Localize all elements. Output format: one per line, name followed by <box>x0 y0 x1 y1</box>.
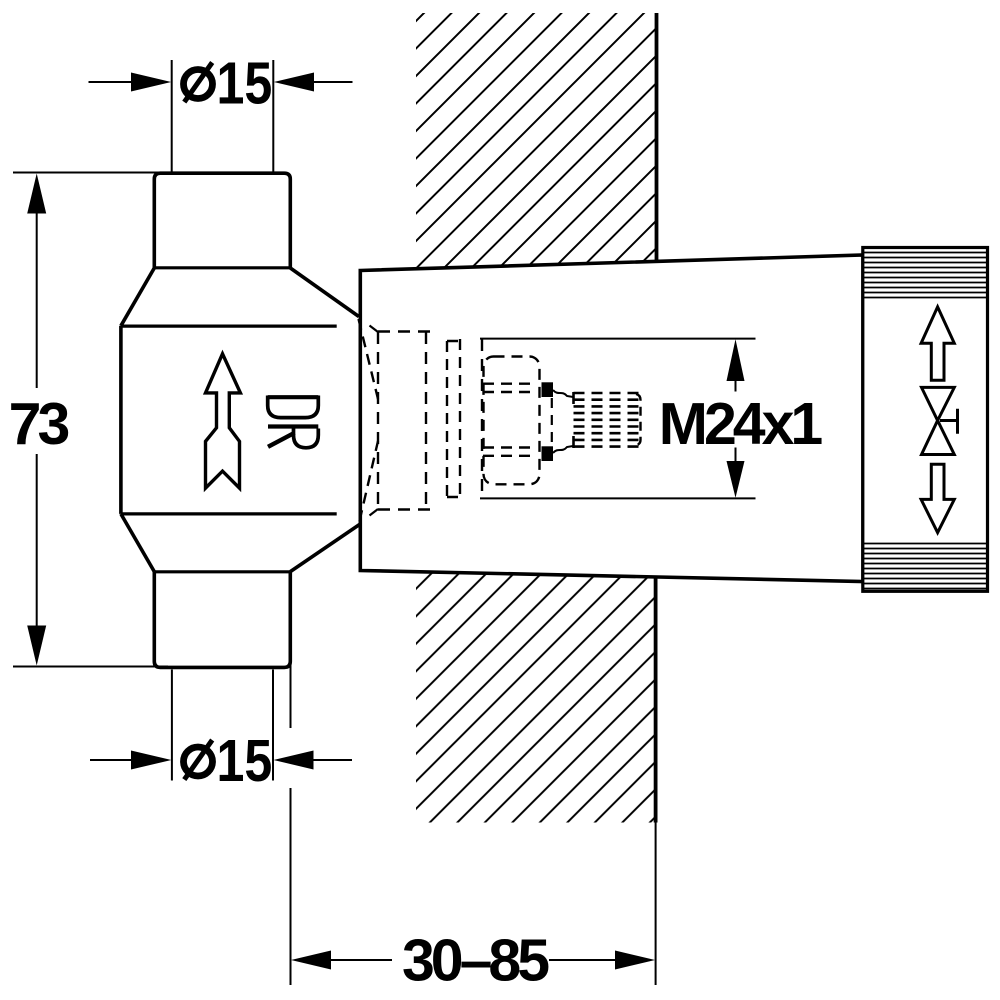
dim top d15 arrow left <box>131 73 171 92</box>
wall hatch lower <box>416 572 656 823</box>
seal O-ring top <box>542 382 554 397</box>
hidden taper dashed upper <box>359 319 379 399</box>
dim 73 arrow up <box>27 174 46 214</box>
svg-text:30–85: 30–85 <box>402 928 549 994</box>
dim top d15 extension right <box>272 60 274 174</box>
svg-text:73: 73 <box>9 391 69 457</box>
dim top d15 line right <box>312 81 353 83</box>
spindle thread dashed rows <box>574 393 640 447</box>
dim bottom d15 arrow left <box>131 751 171 770</box>
dim 30-85 arrow right <box>615 951 655 970</box>
dim top d15 extension left <box>171 60 173 174</box>
cartridge groove lines <box>483 384 531 456</box>
dim 73 extension bottom <box>13 666 168 668</box>
seal squiggle top <box>553 390 573 397</box>
spindle right end dashed <box>636 394 641 446</box>
svg-text:M24x1: M24x1 <box>659 391 823 457</box>
svg-text:15: 15 <box>217 50 273 117</box>
valve body stub bottom <box>154 572 290 668</box>
spindle left end <box>572 392 575 448</box>
dim 30-85 line right <box>549 959 617 961</box>
valve symbol stem <box>940 409 958 434</box>
dim 73 line upper <box>36 210 38 388</box>
dim top d15 text <box>184 70 213 99</box>
DR marking <box>268 396 319 448</box>
hidden nut chamfer ticks <box>370 326 379 516</box>
valve symbol lower triangle <box>922 421 955 455</box>
close arrow down <box>921 464 954 532</box>
dim M24 extension top <box>480 338 756 340</box>
handle cap body <box>863 248 988 592</box>
dim 73 line lower <box>36 454 38 630</box>
spindle gap dashed <box>551 398 553 444</box>
dim bottom d15 extension left <box>171 670 173 781</box>
dim M24 extension bottom <box>480 497 756 499</box>
dim 30-85 line left <box>329 959 392 961</box>
valve body lower flare right <box>290 524 360 572</box>
handle cap knurling bottom <box>863 544 988 589</box>
dim bottom d15 extension right <box>272 670 274 781</box>
dim 30-85 arrow left <box>291 951 331 970</box>
valve body stub bottom shoulder <box>154 570 290 573</box>
cartridge dashed outline <box>484 357 540 485</box>
dim 30-85 extension left upper <box>290 572 292 728</box>
dim M24 line upper <box>735 379 737 392</box>
flow direction arrow <box>206 354 241 488</box>
dim top d15 arrow right <box>274 73 314 92</box>
svg-text:15: 15 <box>217 727 273 794</box>
valve symbol upper triangle <box>922 387 955 420</box>
hidden nut dashed <box>378 332 437 511</box>
valve body upper flare right <box>290 268 359 317</box>
dim M24 arrow down <box>727 461 745 498</box>
dim top d15 line left <box>89 81 134 83</box>
dim bottom d15 line right <box>312 759 353 761</box>
handle cap knurling top <box>863 253 988 298</box>
hidden thread flank dashed <box>481 339 483 499</box>
dim bottom d15 line left <box>90 759 133 761</box>
dim bottom d15 arrow right <box>274 751 314 770</box>
wall edge upper <box>655 13 659 262</box>
valve body upper flare left <box>121 268 154 326</box>
dim bottom d15 text <box>184 747 213 776</box>
wall edge lower <box>654 577 658 823</box>
hidden ring dashed <box>447 339 460 499</box>
valve body stub top <box>154 173 290 268</box>
seal O-ring bottom <box>542 446 554 461</box>
concealment cone body <box>360 255 863 582</box>
valve body left edge <box>119 326 123 514</box>
dim 73 extension top <box>13 172 168 174</box>
wall hatch upper <box>416 13 657 269</box>
valve body shoulder line lower <box>121 512 337 515</box>
valve body stub top shoulder <box>154 266 290 269</box>
dim 30-85 extension right <box>655 823 657 986</box>
hidden taper dashed lower <box>360 441 379 521</box>
valve body shoulder line upper <box>121 325 337 328</box>
open arrow up <box>921 307 954 380</box>
dim M24 line lower <box>735 448 737 464</box>
dim 73 arrow down <box>27 626 46 666</box>
seal squiggle bottom <box>553 446 573 453</box>
dim 30-85 extension left lower <box>290 788 292 985</box>
dim M24 arrow up <box>727 339 745 381</box>
valve body lower flare left <box>121 514 154 572</box>
